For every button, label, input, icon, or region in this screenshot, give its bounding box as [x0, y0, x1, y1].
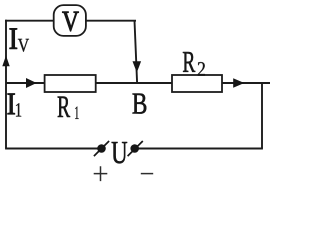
wire: middle horizontal main branch	[6, 82, 270, 84]
label R2: subscript 2	[198, 62, 205, 76]
slash on + terminal	[94, 141, 109, 156]
arrow down on voltmeter branch	[133, 61, 142, 72]
wire: voltmeter branch vertical down to node B	[135, 21, 138, 83]
resistor R2 box	[172, 75, 222, 92]
label U source voltage	[112, 142, 128, 163]
label IV: I	[10, 28, 17, 48]
wire: left vertical branch	[5, 20, 7, 149]
slash on - terminal	[128, 141, 143, 156]
arrow right after R2	[233, 78, 244, 88]
wire: bottom right segment from - terminal	[135, 148, 263, 150]
terminal dot + side	[97, 144, 106, 153]
wire: bottom left segment to + terminal	[5, 148, 101, 150]
terminal dot - side	[130, 144, 139, 153]
label I1: I	[8, 94, 15, 115]
wire: top horizontal through voltmeter	[5, 20, 136, 22]
label I1: subscript 1	[16, 103, 21, 116]
label node B	[133, 94, 147, 114]
label IV: subscript V	[18, 39, 29, 52]
voltmeter V body	[54, 5, 86, 36]
minus sign	[141, 173, 153, 175]
plus sign	[94, 166, 108, 181]
label R2: R	[183, 52, 195, 72]
voltmeter letter V	[62, 12, 78, 31]
resistor R1 box	[45, 75, 96, 92]
arrow up for IV on left wire	[2, 56, 9, 67]
label R1: R	[58, 97, 71, 117]
label R1: subscript 1	[75, 107, 78, 119]
wire: right vertical	[261, 83, 263, 149]
arrow right for I1 before R1	[26, 78, 37, 88]
